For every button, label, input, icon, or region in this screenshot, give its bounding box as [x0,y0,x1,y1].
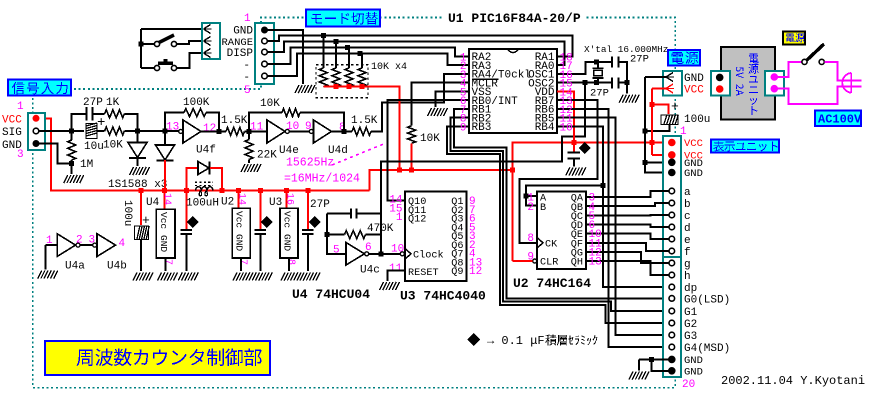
pin GND [33,141,39,147]
svg-text:DISP: DISP [227,48,254,60]
U4a input gnd wire [45,245,47,269]
pin SIG [33,128,39,134]
wire U2 QD to segment d [586,224,669,227]
wire 1K down [124,114,137,131]
wire U2 QG to segment g [586,252,669,263]
svg-text:U4e: U4e [279,145,299,157]
electrolytic 10u [86,124,97,139]
capacitor 0.1uF VDD [568,152,580,158]
capacitor 0.1uF U4 [181,230,193,234]
wire cap right [357,213,381,215]
pin 3 DISP [262,49,268,55]
svg-text:U2: U2 [221,197,234,209]
ground U4a [38,271,58,279]
display pin f [669,248,675,254]
label text 電源 [672,52,699,64]
label text 5V 2A vertical [736,67,744,96]
svg-text:GND: GND [233,26,253,38]
pin VCC dot [717,86,723,92]
junction gnd/100u [643,129,648,134]
svg-text:1.5K: 1.5K [351,115,378,127]
junction rail [139,42,144,47]
pin 2 RANGE [262,38,268,44]
wire to array R2 [335,41,337,68]
display pin c [669,212,675,218]
svg-text:Clock: Clock [413,250,444,262]
svg-text:Q12: Q12 [408,215,426,226]
svg-text:470K: 470K [367,223,394,235]
svg-text:RB4: RB4 [535,122,555,134]
array resistor 2 [332,68,340,87]
U4c output wire [369,253,400,255]
ground U3 power [281,273,301,281]
junction array R3 [345,45,350,50]
wire to array R3 [347,48,349,69]
resistor 1K [105,110,125,118]
wire to RA3 pin2 [267,54,469,77]
red wire CLR [513,260,533,262]
wire 100K to output [206,113,219,131]
svg-text:11: 11 [389,263,403,275]
GND wire [39,144,72,164]
red wire row1 [652,142,669,144]
banner text 周波数カウンタ制御部 [77,349,262,367]
U2 IC body 74HC164 [537,192,586,269]
GND vertical [645,77,669,173]
ground VSS [428,108,448,116]
OSC2 node wire [557,82,612,84]
pin 4 [262,61,268,67]
wire U3 to gnd [288,258,290,271]
wire 10u to 10K [97,130,105,132]
red junction [139,188,144,193]
svg-text:VCC: VCC [2,115,22,127]
display pin GND [669,368,675,374]
svg-text:U4d: U4d [328,145,348,157]
svg-text:=16MHz/1024: =16MHz/1024 [284,173,360,186]
wire cap left [327,213,351,215]
wire to D1 [137,131,139,143]
ground under 1M [64,175,84,183]
arrow pin 2 [204,37,212,46]
svg-text:→ 0.1 μF: → 0.1 μF [487,334,545,348]
wire to 27P cap [72,114,86,131]
power connector J3 [663,71,682,96]
red wire cap2 [259,191,261,229]
svg-text:8: 8 [285,259,296,265]
U4c input net [327,214,346,254]
svg-text:1: 1 [396,212,403,224]
svg-text:5: 5 [333,245,340,257]
U3 IC body 74HC4040 [405,192,467,281]
svg-text:CLR: CLR [540,258,558,269]
ground 100u [133,273,153,281]
svg-text:14: 14 [236,193,247,205]
wire button to pin3 [177,53,203,68]
RB1 wire to G0 [454,109,667,299]
red junction 100u+ [649,102,654,107]
red VCC bus1 from input connector [39,118,370,190]
wire U2 QB to segment b [586,203,669,206]
MCLR wire to 10K pullup [412,83,469,126]
svg-text:1: 1 [244,13,251,25]
note text 積層 [545,334,567,345]
AC wire switch to plug [824,62,848,81]
red vertical to CLR [512,170,514,261]
resistor array 10K x4 dashed box [316,65,368,98]
display connector box upper [663,136,681,257]
svg-text:GND: GND [684,168,703,180]
svg-text:10u: 10u [84,141,104,153]
resistor 10K series [105,127,125,135]
junction node D2 [163,129,168,134]
display pin a [669,188,675,194]
ground display connector [629,372,649,380]
U4 power box Vcc/GND [156,209,175,258]
wire U2 to gnd [240,258,242,271]
svg-text:d: d [684,223,691,235]
diode D1 (1S1588) [128,143,147,158]
junction OSC2 [582,80,587,85]
svg-text:dp: dp [684,283,697,295]
junction node 8 [342,129,347,134]
red wire to 100u [140,191,142,225]
svg-text:GND: GND [282,234,293,251]
red wire cap3 [307,191,309,229]
pin 5 [262,73,268,79]
svg-text:U2 74HC164: U2 74HC164 [513,276,591,291]
AC wire bottom to plug [777,87,849,104]
svg-text:20: 20 [682,379,695,391]
wire to array R1 [322,36,324,68]
svg-text:U4b: U4b [107,261,127,273]
wire U4e to U4d [289,130,309,132]
svg-text:e: e [684,235,691,247]
svg-text:U1 PIC16F84A-20/P: U1 PIC16F84A-20/P [448,11,581,26]
junction RB4/dp [601,183,606,188]
svg-text:100K: 100K [183,97,210,109]
red junction U2 [236,188,241,193]
wire to 470K [327,234,345,236]
red junction bus2 [397,167,402,172]
RESET wire to gnd [388,271,406,282]
red VCC bus2 riser [370,170,513,191]
wire to toggle [141,43,155,45]
capacitor 0.1uF U3 [302,230,314,234]
svg-text:X'tal 16.000MHz: X'tal 16.000MHz [584,44,668,55]
U1 PIC16F84A-20/P title [443,9,584,24]
display pin G0(LSD) [669,296,675,302]
diode D2 (1S1588) [156,145,175,160]
0.1uF note diamond [467,333,480,346]
display pin GND [669,356,675,362]
resistor 100K [184,109,206,117]
red wire row2 [652,154,669,156]
input connector J1 [28,113,45,150]
svg-text:10K: 10K [260,98,280,110]
arrow VCC [666,84,674,93]
label モード切替 (mode switch) [306,10,380,27]
U3 power box Vcc/GND [280,208,298,258]
switch connector [202,23,220,59]
red VCC wire to VDD row [513,143,650,170]
power unit output connector [765,71,784,96]
svg-text:7: 7 [237,259,248,265]
svg-text:12: 12 [469,266,482,278]
U4a output bubble [76,243,80,247]
U4b input bubble [93,243,97,247]
resistor 22K [245,140,253,160]
svg-text:4: 4 [119,238,126,250]
toggle contact R [171,41,176,46]
svg-text:VCC: VCC [684,85,704,97]
svg-text:CK: CK [545,239,558,250]
wire U2 QF to segment f [586,243,669,251]
junction node 11 [247,129,252,134]
svg-text:U3 74HC4040: U3 74HC4040 [400,289,486,304]
label 周波数カウンタ制御部 (frequency counter control) banner [45,341,270,375]
ground RESET [380,282,400,290]
power unit input connector [711,71,730,96]
display pin VCC [669,139,675,145]
svg-text:GND: GND [684,366,703,378]
junction 1M/GND [69,161,74,166]
red loop right [210,168,222,191]
display pin d [669,224,675,230]
junction A/B [523,194,528,199]
svg-text:h: h [684,271,691,283]
GND row19 wire [639,358,669,360]
red junction [347,84,352,89]
pin AC dot 1 [771,74,777,80]
label text 信号入力 [12,82,68,94]
red junction U4 [162,188,167,193]
label 表示ユニット (display unit) [711,140,779,153]
red wire U2 power [238,191,240,209]
OSC1 wire [557,62,597,74]
RB2 wire to G1 [451,118,668,311]
red VDD wire [557,91,574,142]
pin GND dot [717,74,723,80]
label text 電源 yellow [786,33,805,42]
wire U4 to gnd [165,258,167,271]
capacitor 0.1uF U2 [255,230,267,234]
svg-text:2: 2 [527,202,534,214]
wire U2 QA to segment a [586,191,669,197]
svg-text:G1: G1 [684,307,698,319]
svg-text:9: 9 [460,122,467,134]
red loop left [186,168,197,191]
crystal top stub [597,62,599,68]
wire 10K to node8 [300,113,344,132]
display pin G3 [669,332,675,338]
arrow pin 3 [204,49,212,58]
display pin GND [669,169,675,175]
ground mode connector [295,85,315,93]
ground crystal [619,95,639,103]
svg-text:SIG: SIG [2,127,22,139]
capacitor 27P U4c [351,209,357,219]
svg-text:100u: 100u [684,114,710,126]
toggle contact L [154,41,159,46]
wire 100u minus [645,124,669,131]
gnd stub [638,359,640,370]
junction array R4 [358,51,363,56]
svg-text:12: 12 [203,123,216,135]
wire rail to pin1 [141,28,203,30]
display pin GND [669,159,675,165]
label text 電源ユニット vertical [748,54,758,115]
switch contact R [819,59,824,64]
svg-text:16: 16 [284,193,295,205]
svg-text:100u: 100u [121,200,133,226]
U4c output bubble [365,252,369,256]
capacitor 27P bottom [612,77,619,88]
array resistor 3 [345,68,353,87]
svg-text:G0(LSD): G0(LSD) [684,294,730,306]
svg-text:1M: 1M [80,159,93,171]
wire toggle to pin2 [177,41,203,44]
pin 1 GND [262,27,268,33]
svg-text:11: 11 [250,122,264,134]
svg-text:U4a: U4a [65,261,85,273]
svg-text:QH: QH [571,258,583,269]
0.1uF marker U3 [309,216,321,228]
inductor 100uH [196,187,213,191]
svg-text:B: B [540,203,546,214]
button contact L [154,65,159,70]
wire to GND pin3 [645,161,669,163]
svg-text:Q9: Q9 [451,267,463,278]
VSS wire [436,91,469,107]
svg-text:-: - [243,60,250,72]
wire cap3 gnd [307,234,309,271]
svg-text:+: + [97,115,105,131]
wire to gnd [626,82,628,93]
resistor 1.5K out [352,127,371,135]
U4d input bubble [309,129,313,133]
wire 1M to gnd [71,160,73,174]
svg-text:27P: 27P [630,54,649,66]
red junction bus2/CLR [510,167,515,172]
RB4 wire to U2 A [526,126,603,196]
red junction [409,167,414,172]
wire 470K right [366,234,382,236]
red wire to 0.1u [573,143,575,152]
red junction [334,84,339,89]
wire to D2 [164,131,166,145]
wire 27P top to gnd node [619,62,627,82]
switch left rail [140,29,142,68]
display pin G1 [669,308,675,314]
MCLR overbar [472,78,499,80]
svg-text:22K: 22K [257,150,277,162]
display pin e [669,236,675,242]
red wire to 100u plus [652,105,669,114]
svg-text:Vcc: Vcc [158,212,169,229]
array resistor 4 [358,68,366,87]
junction caps [625,80,630,85]
junction array R1 [321,33,326,38]
svg-text:U4f: U4f [196,145,216,157]
U2 CK wedge [537,238,543,249]
label 電源 (power) cyan [668,50,700,66]
RB6 wire to G4 [557,109,667,347]
display connector box lower [663,257,681,377]
svg-text:10K: 10K [103,140,123,152]
U4f input bubble [179,129,183,133]
resistor 1.5K [226,127,244,135]
svg-text:G2: G2 [684,319,697,331]
electrolytic 100u logic [135,226,149,240]
U2 CLR bubble [533,259,537,263]
svg-text:2002.11.04 Y.Kyotani: 2002.11.04 Y.Kyotani [721,374,865,388]
label 電源 (power) yellow [783,32,805,45]
svg-text:6: 6 [365,242,372,254]
display pin dp [669,284,675,290]
RANGE wire to RA1 pin18 [267,36,572,57]
junction U4c out [379,251,384,256]
svg-text:VCC: VCC [684,138,703,150]
ground cap1 [178,273,198,281]
svg-text:GND: GND [684,355,703,367]
AC wire to switch [777,62,803,77]
display pin b [669,200,675,206]
svg-text:5: 5 [244,85,251,97]
svg-text:RESET: RESET [408,268,439,279]
RB7 wire to U2 CK [520,100,598,243]
wire to RA2 pin1 [267,48,469,65]
RB0/INT wire to U3 Q10 [388,100,470,200]
array resistor 1 [319,68,327,87]
electrolytic 100u power [661,115,678,124]
svg-text:3: 3 [17,149,24,161]
svg-text:27P: 27P [310,199,330,211]
svg-text:10K x4: 10K x4 [371,62,407,73]
wire to 10u [72,130,84,132]
node SIG junction [69,129,74,134]
RB5 wire to G3 [557,118,667,335]
crystal X1 [592,68,603,78]
RB3 wire to G2 [447,126,667,323]
dashed schematic boundary [33,18,676,388]
switch contact L [802,59,807,64]
svg-text:RB3: RB3 [472,122,492,134]
wire D1 to gnd [137,158,139,166]
svg-text:GND: GND [158,235,169,252]
red wire D2 to VCC bus [164,160,166,191]
ground cap2 [252,273,272,281]
svg-text:U4 74HCU04: U4 74HCU04 [292,287,370,302]
red junction [360,84,365,89]
red wire to U4 power [164,191,166,210]
op-amp U4f inverter [183,120,201,143]
capacitor 27P input [87,107,93,121]
wire to 27P top [597,61,612,63]
power unit 電源ユニット gray box [721,47,775,120]
svg-text:1S1588 x3: 1S1588 x3 [108,179,167,191]
red junction cap2 [258,188,263,193]
wire U2 QC to segment c [586,214,669,216]
GND row20 wire [651,359,668,370]
resistor 10K feedback [282,109,300,117]
U4e output bubble [285,129,289,133]
U2 power box Vcc/GND [232,208,250,258]
mode connector J2 [255,23,274,84]
diode D3 bypass [198,162,209,175]
capacitor 27P top [612,56,619,67]
wire A to B tie [526,196,537,206]
